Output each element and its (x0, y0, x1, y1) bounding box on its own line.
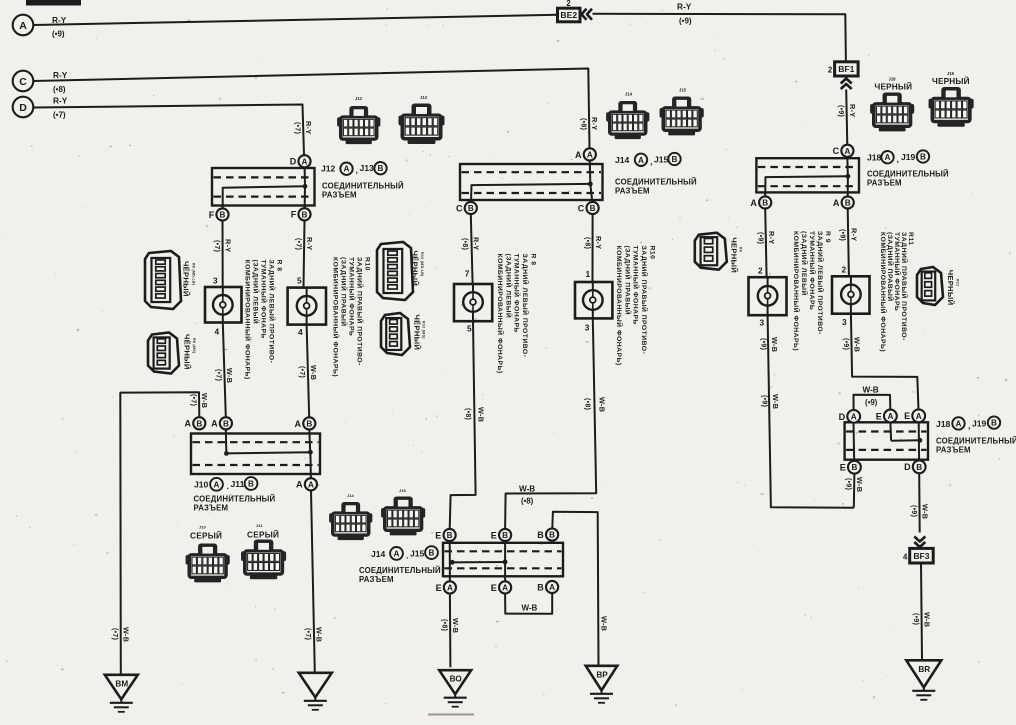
svg-text:A: A (308, 480, 314, 489)
svg-text:W-B: W-B (451, 618, 460, 633)
svg-text:A: A (575, 150, 582, 160)
wire J10 pinA3 to ground W-B (+7) (311, 491, 315, 673)
svg-text:(•9): (•9) (759, 338, 766, 350)
svg-text:B: B (248, 480, 254, 489)
svg-text:E: E (435, 530, 441, 540)
svg-text:A: A (844, 147, 850, 156)
wire lamp to J10 W-B (+7) (307, 325, 310, 418)
svg-text:5: 5 (467, 324, 472, 334)
svg-text:(•9): (•9) (52, 30, 65, 39)
svg-text:W-B: W-B (923, 612, 932, 627)
svg-text:ЧЁРНЫЙ: ЧЁРНЫЙ (411, 251, 420, 287)
svg-text:B: B (306, 419, 312, 428)
svg-text:B: B (447, 531, 453, 540)
svg-text:ЧЕРНЫЙ: ЧЕРНЫЙ (730, 237, 739, 273)
svg-text:.: . (227, 481, 229, 491)
svg-text:СЕРЫЙ: СЕРЫЙ (247, 529, 279, 540)
svg-text:C: C (456, 203, 463, 213)
svg-text:(•9): (•9) (839, 229, 846, 241)
svg-text:(•8): (•8) (464, 408, 471, 420)
svg-text:(•8): (•8) (583, 237, 590, 249)
svg-text:B: B (991, 419, 997, 428)
svg-text:A: A (956, 419, 962, 428)
svg-text:E: E (491, 530, 497, 540)
svg-text:ЧЕРНЫЙ: ЧЕРНЫЙ (946, 270, 955, 306)
internal wires J18 lower (853, 423, 856, 462)
wire A to BE2 R-Y (+9) (34, 15, 558, 25)
svg-text:B: B (851, 463, 857, 472)
svg-text:A: A (302, 157, 308, 166)
svg-text:РАЗЪЕМ: РАЗЪЕМ (194, 504, 229, 513)
svg-text:W-B: W-B (225, 368, 234, 383)
wire J18 to lamp R9 pin2 R-Y (+9) (765, 209, 766, 278)
svg-text:R10 (MS): R10 (MS) (422, 321, 426, 339)
svg-text:C: C (19, 76, 27, 88)
svg-text:A: A (19, 20, 27, 32)
fog lamp R11 pins 2-3 (832, 276, 870, 313)
svg-text:J18: J18 (867, 153, 882, 163)
svg-text:A: A (394, 549, 400, 558)
svg-text:(•8): (•8) (461, 238, 468, 250)
svg-text:2: 2 (566, 0, 571, 8)
svg-text:3: 3 (585, 323, 590, 333)
svg-text:R-Y: R-Y (224, 239, 233, 252)
svg-text:СОЕДИНИТЕЛЬНЫЙ: СОЕДИНИТЕЛЬНЫЙ (615, 178, 697, 187)
svg-text:СЕРЫЙ: СЕРЫЙ (190, 530, 222, 541)
svg-text:7: 7 (465, 269, 470, 279)
wire D to J12 connector R-Y (+7) (34, 105, 305, 156)
bracket D-A to E-A W-B (+9) (854, 395, 891, 411)
svg-text:2: 2 (842, 265, 847, 275)
ground BO (439, 670, 471, 694)
wire J12 to lamp pin5 R-Y (+7) (304, 220, 305, 287)
svg-text:(•7): (•7) (294, 122, 301, 134)
wire lamp R8 to J10 W-B (+7) (223, 323, 226, 418)
wire lamp R11 to J18 lower W-B (+9) (851, 314, 919, 410)
svg-text:J11: J11 (231, 479, 245, 489)
svg-text:СОЕДИНИТЕЛЬНЫЙ: СОЕДИНИТЕЛЬНЫЙ (359, 566, 441, 575)
connector block J18/J19 lower (845, 422, 928, 459)
svg-text:(•8): (•8) (580, 118, 587, 130)
connector icon black 4pin mid (381, 313, 410, 355)
svg-text:,: , (897, 154, 899, 164)
svg-text:B: B (672, 155, 678, 164)
ground BP (586, 666, 618, 691)
svg-text:A: A (549, 583, 555, 592)
svg-text:W-B: W-B (920, 504, 929, 519)
svg-text:A: A (851, 412, 857, 421)
svg-text:СОЕДИНИТЕЛЬНЫЙ: СОЕДИНИТЕЛЬНЫЙ (867, 170, 949, 179)
svg-text:РАЗЪЕМ: РАЗЪЕМ (615, 187, 650, 196)
svg-text:(•8): (•8) (441, 619, 448, 631)
svg-text:BF3: BF3 (913, 551, 929, 561)
svg-text:B: B (378, 164, 384, 173)
svg-text:A: A (638, 156, 644, 165)
internal wires J14 lower (449, 541, 451, 581)
svg-text:J13: J13 (360, 163, 375, 173)
svg-text:J12: J12 (355, 96, 363, 101)
connector icon 3pin far right (917, 267, 943, 305)
svg-text:3: 3 (842, 317, 847, 327)
fog lamp mid pins 7-5 (454, 284, 492, 321)
svg-text:A: A (833, 198, 840, 208)
wire C to J14 connector R-Y (+8) (34, 69, 590, 149)
svg-text:A: A (211, 419, 218, 429)
svg-text:J15: J15 (654, 155, 669, 165)
svg-text:A: A (587, 150, 593, 159)
svg-text:J11: J11 (256, 523, 263, 528)
svg-text:J19: J19 (901, 152, 916, 162)
connector block J12/J13 (212, 168, 315, 206)
svg-text:BF1: BF1 (838, 64, 854, 74)
connector block J10/J11 (191, 434, 320, 475)
connector icon black 4pin left (148, 333, 179, 374)
svg-text:W-B: W-B (309, 365, 318, 380)
svg-text:B: B (590, 204, 596, 213)
svg-text:J18: J18 (889, 77, 897, 82)
svg-text:E: E (876, 411, 882, 421)
svg-text:ЧЁРНЫЙ: ЧЁРНЫЙ (182, 261, 191, 297)
svg-text:W-B: W-B (598, 397, 607, 412)
svg-text:A: A (344, 165, 350, 174)
svg-text:J14: J14 (615, 155, 630, 165)
svg-text:W-B: W-B (522, 603, 538, 612)
svg-text:B: B (429, 549, 435, 558)
svg-text:B: B (502, 531, 508, 540)
svg-text:(•7): (•7) (304, 628, 311, 640)
ground BR (906, 660, 941, 687)
svg-text:(•9): (•9) (865, 398, 878, 407)
svg-text:(•7): (•7) (213, 240, 220, 252)
svg-text:РАЗЪЕМ: РАЗЪЕМ (867, 179, 902, 188)
svg-text:J14: J14 (371, 549, 386, 559)
svg-text:R11: R11 (956, 279, 960, 286)
svg-text:E: E (491, 583, 497, 593)
svg-text:(•7): (•7) (53, 111, 66, 120)
svg-text:(•9): (•9) (756, 232, 763, 244)
connector block J14/J15 upper (460, 164, 603, 200)
svg-text:A: A (750, 198, 757, 208)
svg-text:F: F (291, 210, 297, 220)
svg-text:(•9): (•9) (845, 478, 852, 490)
svg-text:B: B (468, 204, 474, 213)
svg-text:R-Y: R-Y (677, 2, 692, 12)
svg-text:ЧЕРНЫЙ: ЧЕРНЫЙ (875, 81, 913, 92)
svg-text:(•9): (•9) (910, 505, 917, 517)
wire D-B to BF3 W-B (+9) (918, 473, 921, 533)
svg-text:2: 2 (828, 65, 833, 74)
svg-text:A: A (295, 419, 302, 429)
svg-text:F: F (209, 210, 215, 220)
svg-text:B: B (220, 211, 226, 220)
svg-text:РАЗЪЕМ: РАЗЪЕМ (936, 446, 971, 455)
svg-text:W-B: W-B (771, 394, 780, 409)
svg-text:3: 3 (213, 276, 218, 286)
svg-text:(•7): (•7) (214, 369, 221, 381)
svg-text:РАЗЪЕМ: РАЗЪЕМ (359, 575, 394, 584)
svg-text:ЧЁРНЫЙ: ЧЁРНЫЙ (183, 334, 192, 370)
svg-text:B: B (549, 531, 555, 540)
svg-text:(•9): (•9) (761, 395, 768, 407)
svg-text:E: E (904, 411, 910, 421)
wire J18 to lamp R11 pin2 R-Y (+9) (848, 209, 849, 277)
terminal D (13, 97, 34, 118)
svg-text:B: B (537, 530, 544, 540)
svg-text:D: D (839, 412, 846, 422)
wire lamp to J14 lower W-B (+8) (505, 319, 596, 530)
svg-text:4: 4 (903, 552, 908, 561)
svg-text:R-Y: R-Y (848, 104, 857, 117)
svg-text:R-Y: R-Y (849, 228, 858, 241)
svg-text:W-B: W-B (855, 477, 864, 492)
svg-text:1: 1 (586, 269, 591, 279)
svg-text:D: D (290, 157, 297, 167)
svg-text:5: 5 (297, 276, 302, 286)
svg-text:R-Y: R-Y (52, 15, 67, 25)
arrow into BF3 (914, 537, 925, 542)
svg-text:J13: J13 (420, 95, 428, 100)
svg-text:R-Y: R-Y (305, 237, 314, 250)
svg-text:R-Y: R-Y (304, 121, 313, 134)
page edge mark (26, 0, 81, 6)
wire BF3 to ground BR W-B (+9) (921, 563, 922, 660)
svg-text:A: A (887, 412, 893, 421)
svg-text:D: D (19, 102, 27, 114)
svg-text:2: 2 (758, 266, 763, 276)
svg-text:J14: J14 (347, 493, 354, 498)
connector block J18/J19 upper (756, 158, 859, 192)
svg-text:СОЕДИНИТЕЛЬНЫЙ: СОЕДИНИТЕЛЬНЫЙ (936, 437, 1016, 446)
svg-text:J14: J14 (625, 92, 633, 97)
wire BF1 to J18 connector R-Y (+9) (846, 90, 847, 145)
wire lamp R9 down W-B (+9) (768, 315, 854, 508)
svg-text:W-B: W-B (315, 627, 324, 642)
svg-text:,: , (356, 165, 358, 175)
svg-text:R-Y: R-Y (767, 231, 776, 244)
svg-text:J12: J12 (321, 164, 336, 174)
svg-text:РАЗЪЕМ: РАЗЪЕМ (322, 190, 357, 199)
svg-text:R8 (MD.LB): R8 (MD.LB) (192, 263, 196, 286)
fog lamp left pins 5-4 (288, 288, 326, 325)
svg-text:J15: J15 (679, 88, 687, 93)
fog lamp left R8 pins 3-4 (205, 287, 242, 323)
svg-text:J10: J10 (199, 525, 206, 530)
terminal C (13, 71, 34, 92)
svg-text:A: A (885, 153, 891, 162)
svg-text:A: A (185, 419, 192, 429)
svg-text:W-B: W-B (863, 386, 879, 395)
svg-text:W-B: W-B (770, 337, 779, 352)
arrow into BE2 (582, 9, 587, 20)
svg-text:A: A (502, 583, 508, 592)
svg-text:J19: J19 (947, 71, 955, 76)
fog lamp mid pins 1-3 (575, 282, 612, 318)
wire BE2 to BF1 R-Y (+9) (593, 14, 846, 62)
svg-text:(•7): (•7) (294, 238, 301, 250)
svg-text:R10 (MD.LB): R10 (MD.LB) (420, 252, 424, 277)
svg-text:4: 4 (298, 327, 303, 337)
svg-text:(•9): (•9) (837, 105, 844, 117)
wire E-A2 to B-A loop W-B (505, 593, 552, 614)
svg-text:(•7): (•7) (298, 366, 305, 378)
internal wire J18 upper (846, 157, 849, 176)
svg-text:(•8): (•8) (53, 85, 66, 94)
wire E-B to lamp R9 wire W-B (+9) (853, 473, 856, 507)
ground left second (299, 673, 332, 698)
svg-text:.: . (406, 551, 408, 561)
svg-text:A: A (447, 583, 453, 592)
svg-text:(•9): (•9) (679, 17, 692, 26)
internal wire J14 (589, 161, 592, 184)
svg-text:J19: J19 (972, 419, 987, 429)
ground BM (105, 675, 138, 700)
svg-text:C: C (833, 146, 840, 156)
internal wire J10 (225, 430, 228, 454)
terminal A (13, 15, 34, 36)
fog lamp R9 pins 2-3 (749, 277, 787, 315)
svg-text:ЧЕРНЫЙ: ЧЕРНЫЙ (932, 75, 970, 86)
svg-text:R-Y: R-Y (594, 236, 603, 249)
svg-text:B: B (920, 153, 926, 162)
connector icon black 6pin mid (377, 242, 413, 300)
svg-text:R8 (MS): R8 (MS) (192, 338, 196, 354)
svg-text:B: B (537, 582, 544, 592)
svg-text:W-B: W-B (853, 337, 862, 352)
svg-text:(•9): (•9) (912, 613, 919, 625)
svg-text:,: , (968, 421, 970, 431)
wire J14 to lamp pin7 R-Y (+8) (471, 214, 473, 284)
svg-text:R-Y: R-Y (53, 70, 68, 80)
svg-text:ВР: ВР (596, 670, 608, 679)
svg-text:A: A (916, 412, 922, 421)
wire lamp to J14 lower W-B (+8) (450, 321, 476, 529)
svg-text:A: A (214, 480, 220, 489)
svg-text:,: , (650, 157, 652, 167)
svg-text:W-B: W-B (599, 616, 608, 631)
svg-text:B: B (302, 210, 308, 219)
svg-text:B: B (916, 463, 922, 472)
wire J10 pinA1 to ground BM W-B (+7) (120, 392, 199, 675)
arrow into BF1 (841, 79, 852, 84)
svg-text:W-B: W-B (200, 393, 209, 408)
svg-text:(•7): (•7) (111, 628, 118, 640)
wire J12 to lamp R8 pin3 R-Y (+7) (222, 221, 224, 287)
connector icon black 6pin left (145, 251, 181, 309)
svg-text:B: B (223, 419, 229, 428)
svg-text:ВО: ВО (450, 675, 463, 684)
connector icon 3pin right mid (695, 233, 727, 270)
svg-text:СОЕДИНИТЕЛЬНЫЙ: СОЕДИНИТЕЛЬНЫЙ (194, 495, 276, 504)
svg-text:D: D (904, 462, 911, 472)
svg-text:E: E (840, 463, 846, 473)
svg-text:(•8): (•8) (521, 497, 534, 506)
svg-text:R9: R9 (739, 247, 743, 252)
junction BF3 (910, 548, 934, 563)
svg-text:4: 4 (215, 327, 220, 337)
svg-text:(•9): (•9) (842, 338, 849, 350)
svg-text:W-B: W-B (476, 407, 485, 422)
svg-text:J10: J10 (194, 480, 209, 490)
svg-text:СОЕДИНИТЕЛЬНЫЙ: СОЕДИНИТЕЛЬНЫЙ (322, 181, 404, 190)
internal wire J12 (304, 162, 307, 187)
svg-text:E: E (436, 583, 442, 593)
svg-text:BE2: BE2 (560, 10, 577, 20)
svg-text:R-Y: R-Y (472, 237, 481, 250)
svg-text:3: 3 (760, 318, 765, 328)
wire E-A1 to ground BO W-B (+8) (449, 594, 452, 668)
svg-text:ВМ: ВМ (115, 679, 128, 688)
wire J14 to lamp pin1 R-Y (+8) (592, 214, 594, 282)
svg-text:(•8): (•8) (584, 398, 591, 410)
svg-text:B: B (196, 419, 202, 428)
svg-text:J15: J15 (399, 488, 406, 493)
junction BF1 (835, 62, 859, 76)
svg-text:BR: BR (918, 665, 930, 674)
svg-text:(•7): (•7) (190, 394, 197, 406)
junction BE2 (558, 8, 581, 22)
connector block J14/J15 lower (443, 543, 563, 577)
svg-text:W-B: W-B (122, 627, 131, 642)
svg-text:R-Y: R-Y (590, 117, 599, 130)
svg-text:J15: J15 (410, 549, 425, 559)
svg-text:J18: J18 (936, 419, 951, 429)
svg-text:B: B (845, 199, 851, 208)
svg-text:ЧЁРНЫЙ: ЧЁРНЫЙ (413, 315, 422, 351)
svg-text:W-B: W-B (519, 484, 535, 493)
svg-text:A: A (296, 480, 303, 490)
svg-text:B: B (762, 199, 768, 208)
wire B-B to ground BP W-B (552, 512, 598, 666)
svg-text:R-Y: R-Y (53, 96, 68, 106)
svg-text:C: C (578, 203, 585, 213)
